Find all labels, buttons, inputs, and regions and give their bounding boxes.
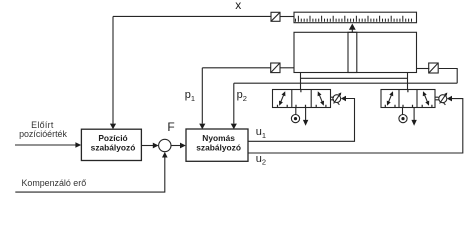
valve V1 exhaust arrow	[303, 108, 308, 126]
valve V2 pressure source line	[402, 108, 404, 115]
svg-text:szabályozó: szabályozó	[196, 143, 241, 153]
transducer P2 (pressure sensor)	[429, 63, 439, 73]
svg-text:u2: u2	[256, 153, 266, 167]
label position controller text	[91, 133, 136, 153]
wire p1 horizontal	[202, 67, 270, 69]
valve V1 middle box stubs	[296, 90, 306, 108]
svg-text:szabályozó: szabályozó	[91, 143, 136, 153]
valve V2 left box arrow	[387, 91, 393, 106]
arrowhead compensation into summing junction	[162, 152, 168, 158]
svg-text:F: F	[167, 120, 174, 134]
valve V1 right box arrow	[318, 91, 324, 106]
wire x feedback vertical	[112, 16, 114, 123]
wire transducer to ruler	[280, 16, 294, 18]
transducer P1 (pressure sensor)	[271, 63, 280, 73]
ruler scale (position measuring scale)	[294, 12, 417, 23]
rod arrowhead pointing at scale	[349, 24, 356, 30]
valve V2 middle box stubs	[403, 90, 413, 108]
wire port link horizontal	[301, 77, 408, 79]
arrowhead p1 into pressure controller	[199, 124, 205, 130]
svg-text:u1: u1	[256, 126, 266, 140]
wire u1 from controller	[248, 99, 355, 142]
valve V1 proportional solenoid circle	[333, 92, 341, 104]
summing junction	[159, 139, 171, 151]
svg-text:pozícióérték: pozícióérték	[19, 129, 67, 139]
arrowhead x into position controller	[110, 124, 116, 130]
wire summing junction to pressure controller	[171, 143, 186, 149]
valve V1 left box port stubs	[278, 105, 288, 108]
wire p2 right vertical	[439, 69, 457, 84]
valve V1 pressure source circle	[291, 115, 299, 123]
svg-text:Kompenzáló erő: Kompenzáló erő	[22, 178, 87, 188]
cylinder body	[294, 32, 417, 72]
wire p1 tap to cylinder	[280, 67, 294, 69]
valve V2 right box arrow	[423, 91, 429, 106]
wire p1 vertical	[201, 68, 203, 124]
wire setpoint input arrow	[15, 142, 81, 148]
valve V2 proportional solenoid circle	[439, 93, 448, 105]
piston rod to scale	[351, 29, 353, 32]
transducer X (position sensor converter)	[271, 12, 280, 21]
wire position controller to summing junction	[141, 143, 158, 149]
valve V1 solenoid link stubs	[331, 97, 335, 100]
svg-text:x: x	[235, 0, 241, 12]
valve V1 body (3-position)	[273, 90, 331, 108]
valve V2 right box port stubs	[422, 105, 432, 108]
valve V2 body (3-position)	[381, 90, 435, 108]
svg-text:p1: p1	[185, 89, 195, 103]
valve V2 solenoid link stubs	[435, 97, 439, 100]
valve V1 left box arrow	[279, 91, 285, 106]
arrowhead p2 into pressure controller	[231, 124, 237, 130]
valve V2 left box port stubs	[385, 105, 395, 108]
wire compensation force	[15, 157, 165, 192]
label setpoint text	[19, 120, 67, 139]
label pressure controller text	[196, 133, 241, 153]
piston	[348, 32, 357, 72]
valve V2 exhaust arrow	[411, 108, 416, 126]
block pressure controller	[186, 129, 248, 161]
wire p2 vertical down	[233, 83, 235, 123]
wire u1 arrow into solenoid	[341, 96, 346, 102]
wire p2 tap to cylinder	[417, 68, 430, 70]
block position controller	[81, 129, 141, 160]
valve V1 right box port stubs	[316, 105, 326, 108]
valve V2 pressure source circle	[399, 115, 407, 123]
svg-text:Nyomás: Nyomás	[202, 133, 235, 143]
wire u2 from controller	[248, 99, 463, 153]
wire cylinder left port	[300, 73, 302, 90]
valve V1 pressure source line	[295, 108, 297, 115]
wire x feedback horizontal	[113, 15, 271, 17]
wire u2 arrow into solenoid	[447, 96, 452, 102]
svg-text:Pozíció: Pozíció	[98, 133, 127, 143]
wire p2 long horizontal	[234, 82, 457, 84]
svg-text:p2: p2	[237, 89, 247, 103]
wire cylinder right port	[407, 73, 409, 90]
